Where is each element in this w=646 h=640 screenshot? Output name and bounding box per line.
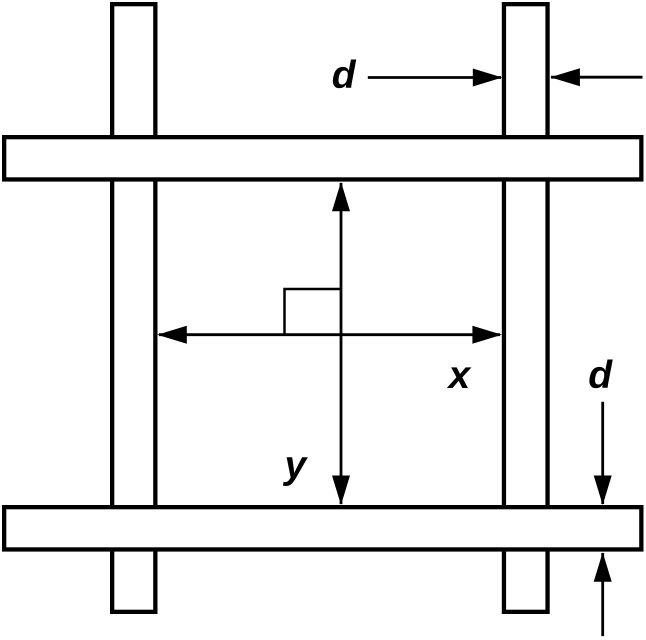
svg-text:y: y [283,444,309,487]
svg-text:d: d [332,54,357,97]
svg-text:x: x [447,354,472,397]
svg-text:d: d [588,354,613,397]
